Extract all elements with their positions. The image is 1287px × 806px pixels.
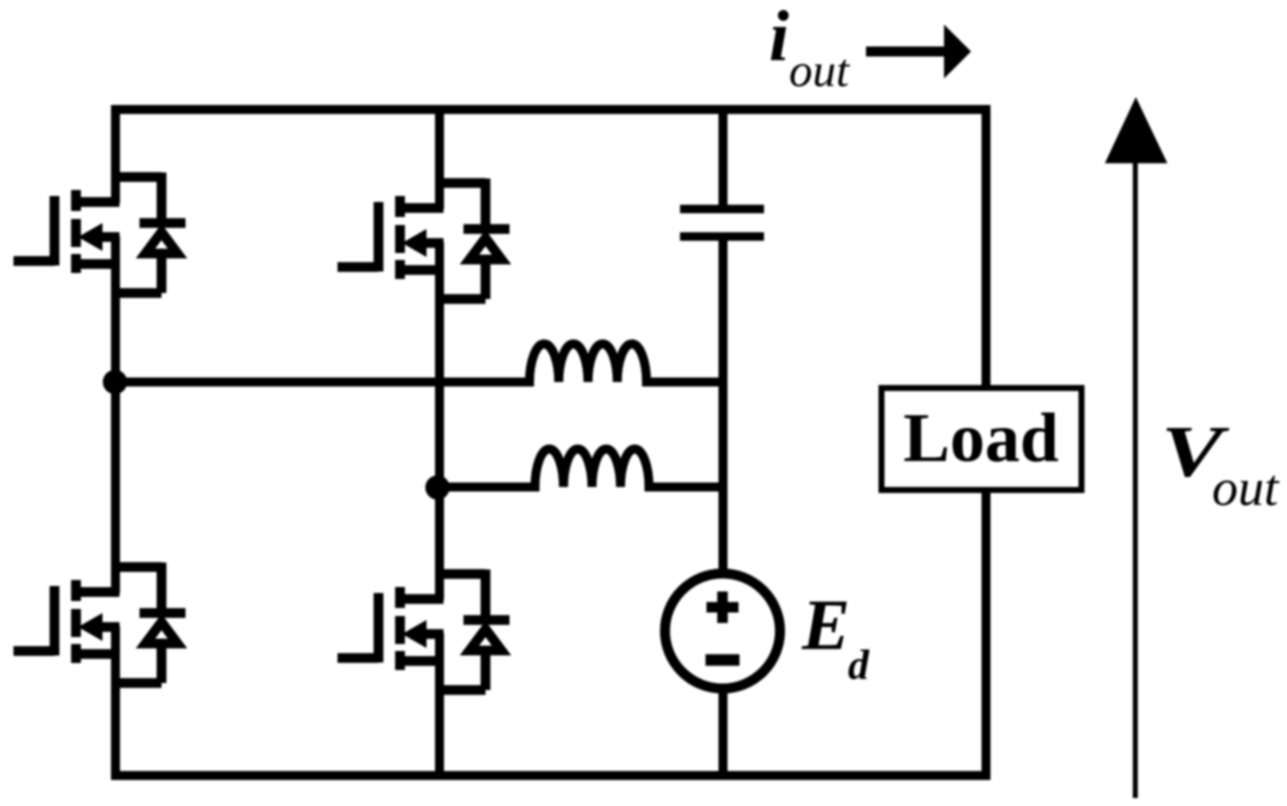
- wire middle leg middle: [435, 242, 444, 600]
- wire branch vertical lower (source to bottom rail): [719, 687, 728, 780]
- wire middle leg lower: [435, 633, 444, 780]
- svg-text:E: E: [801, 585, 850, 665]
- wire right leg lower: [982, 490, 991, 780]
- transistor Q2 (top-middle MOSFET with body diode): [338, 179, 510, 300]
- wire left leg upper: [111, 105, 120, 203]
- wire top rail: [111, 105, 991, 114]
- node A junction dot (left leg / L1): [103, 370, 127, 394]
- inductor L2: [437, 449, 727, 487]
- svg-text:d: d: [848, 643, 870, 689]
- arrow i_out: [866, 47, 948, 57]
- inductor L1: [115, 344, 727, 382]
- svg-text:Load: Load: [903, 400, 1059, 477]
- wire bottom rail: [111, 771, 991, 780]
- transistor Q3 (bottom-left MOSFET with body diode): [14, 563, 186, 684]
- capacitor C: [680, 209, 764, 237]
- wire right leg upper: [982, 105, 991, 388]
- svg-text:i: i: [769, 0, 789, 76]
- wire left leg lower: [111, 626, 120, 780]
- wire middle leg upper: [435, 105, 444, 209]
- wire branch vertical middle (capacitor to source): [719, 240, 728, 576]
- svg-text:out: out: [1212, 460, 1280, 517]
- voltage source Ed circle: [665, 574, 780, 689]
- transistor Q1 (top-left MOSFET with body diode): [14, 173, 186, 294]
- load box: [882, 388, 1082, 490]
- arrow V_out: [1133, 158, 1138, 798]
- node B junction dot (middle leg / L2): [425, 475, 449, 499]
- svg-text:out: out: [789, 45, 850, 97]
- transistor Q4 (bottom-middle MOSFET with body diode): [338, 570, 510, 691]
- voltage source minus sign: [706, 654, 740, 666]
- voltage source plus sign: [707, 592, 739, 624]
- wire left leg middle: [111, 236, 120, 593]
- wire branch vertical upper (to capacitor): [719, 105, 728, 206]
